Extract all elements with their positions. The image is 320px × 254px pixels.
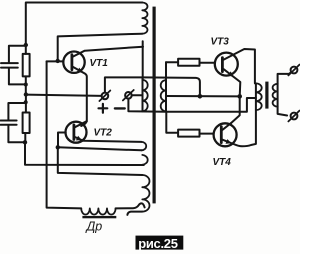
- transformer T2 left winding baseline: [255, 83, 257, 110]
- svg-text:Др: Др: [85, 220, 103, 234]
- winding W4b lower bumps: [142, 175, 149, 212]
- capacitor C1 plates: [1, 63, 18, 68]
- wire T2 secondary bottom lead to terminal: [278, 107, 288, 116]
- transistor VT3 emitter wire down: [224, 69, 241, 96]
- wire W1 bottom lead to VT1 base node: [58, 34, 142, 61]
- wire stub at W3 top: [142, 41, 144, 80]
- svg-text:VT2: VT2: [94, 128, 113, 139]
- wire L2 from VT2 base node to W4a bottom: [58, 147, 142, 150]
- junction dot VT1 base node: [56, 59, 60, 63]
- caption box ris.25: [136, 236, 184, 250]
- wire R4 left lead up to W5 bottom node: [166, 112, 178, 133]
- plug X1 circle: [102, 93, 109, 100]
- wire W1 top lead from R1 node up and across to transformer T1: [26, 3, 143, 46]
- plug X2 slash: [123, 90, 134, 100]
- wire R2 bottom lead: [24, 133, 26, 142]
- transistor VT1 base bar: [71, 55, 74, 70]
- resistor R2: [23, 113, 30, 134]
- junction dot VT3 emitter node: [237, 94, 242, 99]
- junction dot C1/R1 bottom: [24, 83, 28, 87]
- minus sign battery: [115, 107, 125, 109]
- wire R3 left lead: [166, 61, 178, 63]
- junction dot R1 top: [24, 43, 28, 47]
- transformer T2 left winding bumps: [256, 83, 262, 110]
- wire from X1 up and across core to right side: [105, 77, 200, 96]
- wire W5 center tap to VT3 emitter node: [166, 95, 240, 97]
- wire VT3 emitter node down to VT4 collector: [231, 96, 240, 123]
- winding W4a single bump: [142, 142, 147, 150]
- plus sign battery: [99, 104, 108, 113]
- transistor VT3 collector wire to output transformer: [224, 49, 255, 83]
- svg-text:VT1: VT1: [90, 58, 109, 69]
- junction dot R2/C2 bottom: [23, 140, 27, 144]
- wire R1 top lead: [25, 45, 27, 54]
- emitter arrow VT3: [228, 71, 234, 76]
- wire long left vertical from VT1 base node down to choke: [47, 61, 82, 208]
- terminal X3 circle: [291, 67, 298, 74]
- wire VT2 base lead and drop to junction: [58, 133, 66, 148]
- transistor VT4 circle: [214, 123, 237, 146]
- svg-text:VT4: VT4: [213, 157, 232, 168]
- wire choke right lead: [116, 203, 145, 208]
- wire R4 right lead to VT4 base: [200, 133, 214, 135]
- wire X2 tap to winding W3: [132, 94, 143, 96]
- emitter arrow VT2: [76, 136, 82, 141]
- capacitor C1 top lead: [9, 46, 26, 63]
- wire R1 bottom lead: [25, 76, 27, 94]
- junction dot right winding tap node: [198, 94, 203, 99]
- transistor VT2 circle: [66, 122, 87, 143]
- transistor VT2 collector wire: [75, 121, 87, 127]
- emitter arrow VT4: [226, 139, 232, 144]
- capacitor C2 top lead: [8, 103, 25, 120]
- resistor R1: [23, 54, 30, 77]
- junction dot R2 top: [24, 100, 28, 104]
- wire between left nodes: [25, 95, 27, 113]
- transistor VT1 emitter wire down to VT2 collector: [73, 67, 87, 126]
- svg-text:рис.25: рис.25: [138, 236, 178, 251]
- winding W4b top bump: [142, 155, 147, 165]
- resistor R4: [178, 130, 199, 137]
- wire L4 from VT2 base node down and right to winding W4b tap: [58, 147, 143, 175]
- choke core bar: [82, 216, 116, 218]
- wire R3 right lead to VT3 base: [200, 62, 215, 64]
- transformer T1 core: [153, 7, 156, 204]
- capacitor C1 bottom lead: [9, 69, 26, 85]
- terminal X3 slash: [288, 65, 299, 76]
- emitter arrow VT1: [77, 68, 83, 73]
- transistor VT1 circle: [63, 52, 84, 73]
- terminal X4 slash: [288, 111, 299, 122]
- transistor VT1 collector wire to T1: [73, 47, 143, 57]
- transformer T2 right winding bumps: [273, 84, 278, 107]
- wire X2 down then long wire right to output transformer: [128, 98, 256, 112]
- terminal X4 circle: [291, 113, 298, 120]
- transistor VT4 base bar: [220, 127, 223, 143]
- wire from left node to plug X1: [26, 95, 102, 96]
- wire L3 from R2 node down and right to winding W4b top: [25, 142, 144, 165]
- transistor VT2 emitter wire L1 to winding W4a: [75, 137, 142, 142]
- transistor VT3 base bar: [221, 58, 224, 72]
- transistor VT4 collector wire: [223, 123, 232, 130]
- winding W3 baseline: [142, 77, 144, 111]
- junction dot supply node left: [24, 92, 28, 96]
- transistor VT2 base bar: [73, 125, 76, 140]
- resistor R3: [178, 59, 199, 66]
- winding W5 baseline and riser to R3: [165, 62, 167, 111]
- choke Dr winding bumps: [81, 208, 115, 214]
- wire VT1 base lead: [47, 60, 64, 62]
- plug X2 circle: [125, 92, 132, 99]
- junction dot VT2 base node: [56, 145, 60, 149]
- capacitor C2 bottom lead: [8, 126, 25, 143]
- winding W5 bumps: [161, 80, 166, 111]
- wire T2 secondary top lead to terminal: [278, 72, 292, 84]
- plug X1 slash: [99, 91, 110, 102]
- wire W4b bottom lead to choke: [127, 212, 142, 215]
- svg-text:VT3: VT3: [211, 36, 230, 47]
- capacitor C2 plates: [1, 121, 17, 125]
- transformer T2 core: [265, 82, 268, 109]
- transistor VT3 circle: [215, 53, 238, 76]
- transformer T2 right winding baseline: [277, 84, 279, 107]
- winding W1 (T1 primary top, 4 bumps): [142, 3, 147, 34]
- transistor VT4 emitter wire to output transformer bottom: [223, 110, 256, 146]
- winding W3 bumps: [143, 80, 148, 111]
